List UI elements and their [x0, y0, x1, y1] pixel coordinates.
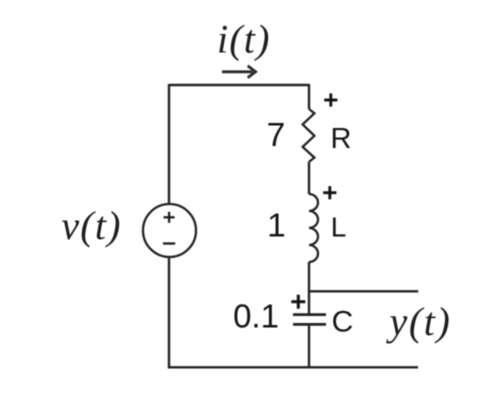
voltage source minus — [163, 242, 175, 244]
capacitor C1 bottom plate — [293, 323, 326, 326]
wire: below capacitor — [308, 324, 310, 368]
voltage source plus — [164, 212, 175, 223]
svg-text:R: R — [331, 123, 352, 155]
wire: right branch top — [308, 84, 310, 109]
voltage source V1 circle — [143, 204, 196, 257]
wire: bottom horizontal — [168, 366, 418, 368]
svg-text:7: 7 — [267, 117, 286, 154]
plus above resistor — [324, 93, 337, 106]
plus above inductor — [323, 186, 336, 199]
wire: between L and C — [308, 262, 310, 314]
wire: left vertical lower — [168, 258, 170, 369]
wire: top horizontal — [169, 84, 309, 86]
wire: between R and L — [308, 162, 310, 194]
svg-text:v(t): v(t) — [61, 203, 121, 248]
current arrow — [222, 66, 256, 78]
svg-text:y(t): y(t) — [386, 299, 452, 344]
svg-text:1: 1 — [267, 207, 286, 244]
capacitor C1 top plate — [293, 313, 326, 316]
wire: left vertical upper — [168, 84, 170, 203]
resistor R1 zigzag — [303, 109, 315, 162]
plus left of capacitor — [291, 295, 305, 309]
svg-text:i(t): i(t) — [217, 17, 271, 62]
wire: output top — [309, 290, 418, 292]
svg-text:0.1: 0.1 — [233, 298, 279, 335]
inductor L1 coils — [309, 194, 318, 262]
svg-text:L: L — [331, 212, 347, 243]
svg-text:C: C — [332, 306, 354, 339]
